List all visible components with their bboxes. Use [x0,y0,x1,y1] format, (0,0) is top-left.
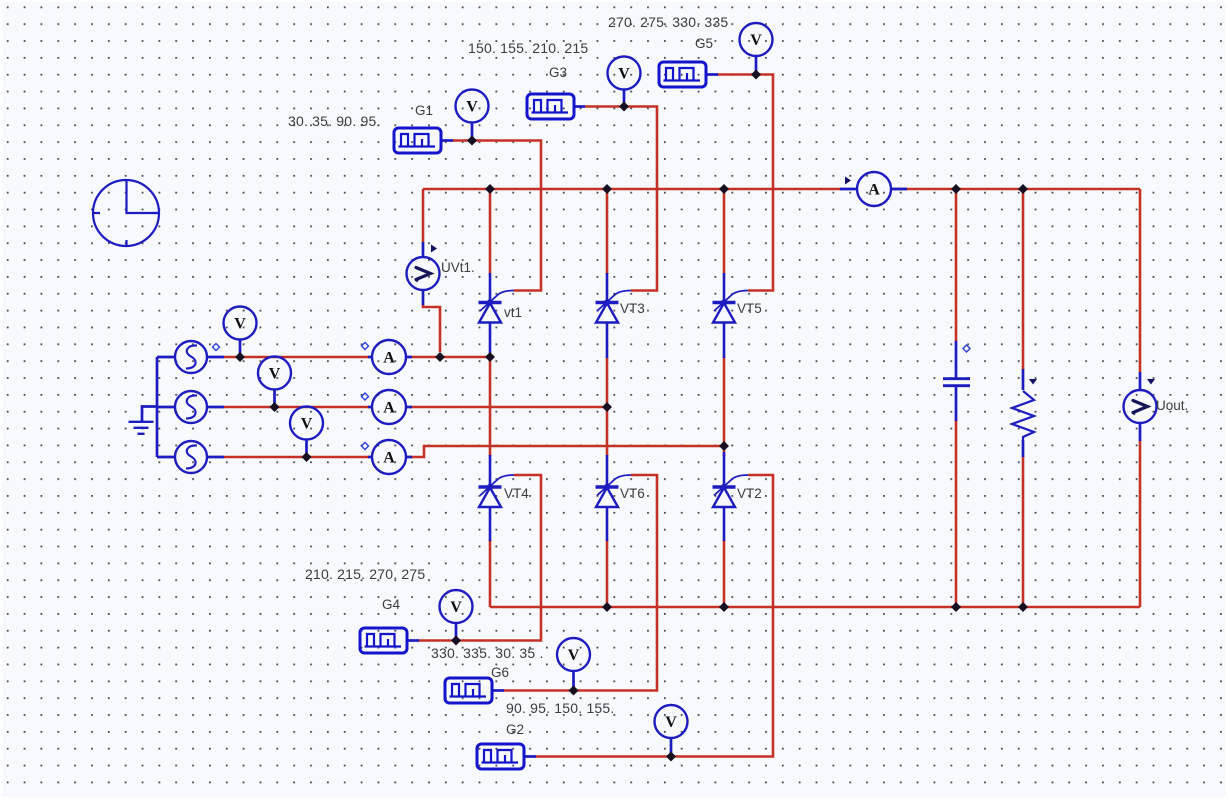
wire: Uout meter pins [1139,372,1142,441]
wire: voltmeter at G5 lead [755,56,758,74]
wire: voltmeter V3 lead [305,440,308,456]
wire: UVt1 bottom lead step to phase A [423,304,440,352]
junction: G6 output / V meter [569,686,579,696]
svg-text:VT4: VT4 [504,486,529,501]
probe Uout circle [1124,390,1157,423]
ammeter A phase C [372,440,406,474]
svg-text:V: V [750,32,762,49]
ammeter A DC bus [857,172,891,206]
junction: top bus / VT1 cathode [485,184,495,194]
wire: Uout column top [1139,189,1142,373]
thyristor VT6 [596,455,632,541]
wire: VT3 anode to phase B [606,357,609,407]
ammeter A phase B [372,390,406,424]
ammeter A phase A [372,340,406,374]
junction: phase C / VT5 anode [719,441,729,451]
wire: VT5 anode to phase C [723,357,726,446]
junction: phase A / UVt1 lead [435,352,445,362]
wire: G6 output pin [492,689,504,692]
wire: phase C step up and run to VT5/VT2 column [411,446,724,457]
junction: G1 output / V meter [467,136,477,146]
pulse generator G5 [659,62,706,87]
wire: source V2 right pin [207,406,224,409]
marker: ammeter A1 diamond [362,343,369,350]
voltmeter at G1 circle [456,90,489,123]
svg-text:V: V [301,415,313,432]
svg-text:150. 155. 210. 215: 150. 155. 210. 215 [468,40,588,56]
meter letters [234,32,1147,731]
wire: G4 output pin [407,639,419,642]
voltmeter at G4 circle [440,590,473,623]
voltmeter V phase B [258,357,291,390]
wire: G6 output to VT6 gate [503,475,657,691]
wire: VT4 anode to DC- bus [489,540,492,607]
wire: source V1 left pin [157,356,175,359]
resistor R1 [1012,391,1034,440]
svg-text:30. 35. 90. 95.: 30. 35. 90. 95. [288,113,381,129]
pulse generator G3 [527,94,574,119]
voltmeter at G3 circle [608,57,641,90]
wire: ammeter A2 pins [368,406,412,409]
voltmeter at G6 circle [557,638,590,671]
thyristor VT2 [713,452,749,541]
thyristor VT5 [713,273,749,358]
junction: bottom bus / VT6 anode [602,602,612,612]
AC source V2 (phase B) [175,391,207,423]
wire: capacitor column bottom [955,420,958,607]
polarity / direction markers [213,177,1156,450]
junction: bottom bus / resistor [1018,602,1028,612]
voltmeter at G5 circle [740,23,773,56]
pulse generator G2 [477,744,524,769]
svg-text:270. 275. 330. 335: 270. 275. 330. 335 [608,14,728,30]
wire: voltmeter at G3 lead [623,90,626,106]
wire: phase A to VT1/VT4 column [411,356,490,359]
clock symbol (simulation time) [93,180,159,247]
svg-text:G4: G4 [382,597,401,612]
wire: UVt1 top lead riser from bus [422,189,425,243]
svg-text:V: V [269,365,281,382]
voltmeter V phase A [224,307,257,340]
wire: ammeter A3 pins [368,456,412,459]
wire: DC+ top bus right segment (node P) [891,188,1140,191]
junction: G4 output / V meter [451,636,461,646]
arrow glyph UVt1 [416,268,431,280]
wire: G1 output pin [441,139,453,142]
svg-text:VT2: VT2 [737,486,762,501]
wire: voltmeter at G1 lead [471,123,474,140]
marker: UVt1 arrow [431,245,437,253]
wire: G3 output pin [574,105,585,108]
wire: VT2 anode to DC- bus [723,540,726,607]
svg-text:G3: G3 [549,65,567,80]
svg-text:V: V [568,647,580,664]
wire: VT5 cathode riser from bus [723,189,726,274]
junction: top bus / resistor [1018,184,1028,194]
wire: capacitor column top [955,189,958,342]
wire: phase C down to VT2 cathode [723,446,726,456]
svg-text:VT3: VT3 [620,301,645,316]
junction: top bus / capacitor [951,184,961,194]
junction: top bus / VT3 cathode [602,184,612,194]
svg-text:V: V [618,65,630,82]
wire: voltmeter at G6 lead [572,671,575,690]
junction: G3 output / V meter [619,102,629,112]
voltmeter V phase C [290,407,323,440]
wire: source V3 left pin [157,456,175,459]
wire: phase C from source [223,456,369,459]
svg-text:V: V [450,599,462,616]
wire: G4 output to VT4 gate [418,475,541,641]
wire: capacitor C1 top pin [955,341,958,378]
wire: ammeter A4 (DC bus) pins [840,188,907,191]
ground symbol [129,422,154,434]
svg-text:VT5: VT5 [737,301,762,316]
junction: phase A voltmeter tap [235,352,245,362]
svg-text:G5: G5 [695,36,713,51]
wire: source V2 left pin [157,406,175,409]
svg-text:VT6: VT6 [620,486,645,501]
pulse generator G6 [445,678,492,703]
marker: source V1 polarity diamond [213,344,220,351]
svg-text:210. 215. 270. 275: 210. 215. 270. 275 [305,566,425,582]
wire: G3 output to VT3 gate [584,107,657,291]
wire: UVt1 meter pins [422,242,425,305]
meters: circles [224,23,1157,738]
junction: bottom bus / VT2 anode [719,602,729,612]
capacitor C1 [943,379,970,386]
arrow glyph Uout [1133,401,1148,413]
wire: resistor column bottom [1022,456,1025,607]
junction: G2 output / V meter [666,752,676,762]
wire: ground stub [142,407,157,422]
svg-text:UVt1.: UVt1. [441,260,475,275]
junction: phase A / VT1 anode [485,352,495,362]
marker: ammeter A3 diamond [362,443,369,450]
wire: phase A from source [223,356,369,359]
wire: DC+ top bus left segment (node P) [423,188,841,191]
wire: VT3 cathode riser from bus [606,189,609,274]
svg-text:G6: G6 [491,665,509,680]
wire: G5 output pin [706,73,718,76]
wire: phase B down to VT6 cathode [606,407,609,456]
svg-text:vt1: vt1 [504,305,522,320]
junction: bottom bus / capacitor [951,602,961,612]
wire: resistor R1 bottom pin [1022,440,1025,457]
svg-text:A: A [868,181,880,198]
wire: source V3 right pin [207,456,224,459]
wire: resistor R1 top pin [1022,369,1025,390]
AC source V1 (phase A) [175,341,207,373]
probe UVt1 circle [407,257,440,290]
junction: phase B voltmeter tap [270,402,280,412]
thyristor VT4 [479,455,515,541]
pulse generator G1 [394,128,441,153]
wire: G2 output to VT2 gate [535,475,773,757]
wire: resistor column top [1022,189,1025,370]
junction: phase C voltmeter tap [302,452,312,462]
marker: Uout arrow down [1147,379,1155,385]
svg-text:V: V [234,315,246,332]
wire: voltmeter at G4 lead [455,623,458,640]
wire: phase B from source [223,406,369,409]
thyristor VT1 [479,273,515,357]
junction: phase B / VT3 anode [602,402,612,412]
svg-text:V: V [665,714,677,731]
svg-text:G1: G1 [415,103,433,118]
wire: capacitor C1 bottom pin [955,386,958,421]
wire: voltmeter V2 lead [273,390,276,406]
svg-text:330. 335. 30. 35 .: 330. 335. 30. 35 . [431,645,544,661]
junction: G5 output / V meter [751,70,761,80]
pulse generator G4 [360,628,407,653]
marker: capacitor diamond [963,345,970,352]
wire: G5 output to VT5 gate [717,75,773,291]
marker: resistor arrow down [1029,379,1037,385]
svg-text:V: V [466,98,478,115]
wire: voltmeter V1 lead [239,340,242,356]
svg-text:A: A [383,449,395,466]
svg-text:G2: G2 [506,722,524,737]
AC source V3 (phase C) [175,441,207,473]
wire: DC- bottom bus (node N) [490,606,1140,609]
wire: G2 output pin [524,755,536,758]
thyristor VT3 [596,273,632,358]
marker: DC ammeter arrow [845,177,851,185]
pulse generators [360,62,706,769]
wire: G1 output to VT1 gate [452,141,541,291]
wire: source interconnect vertical (neutral side) [156,357,159,457]
wire: Uout column bottom [1139,440,1142,607]
wire: phase A down to VT4 cathode [489,357,492,456]
wire: VT6 anode to DC- bus [606,540,609,607]
wire: voltmeter at G2 lead [670,738,673,756]
wire: phase B to VT3/VT6 column [411,406,607,409]
wire: VT1 cathode riser from bus [489,189,492,274]
junction: top bus / VT5 cathode [719,184,729,194]
svg-text:A: A [383,349,395,366]
marker: ammeter A2 diamond [362,393,369,400]
wire: ammeter A1 pins [368,356,412,359]
wire: source V1 right pin [207,356,224,359]
svg-text:Uout.: Uout. [1156,398,1188,413]
voltmeter at G2 circle [655,705,688,738]
svg-text:90. 95. 150. 155.: 90. 95. 150. 155. [506,700,615,716]
svg-text:A: A [383,399,395,416]
